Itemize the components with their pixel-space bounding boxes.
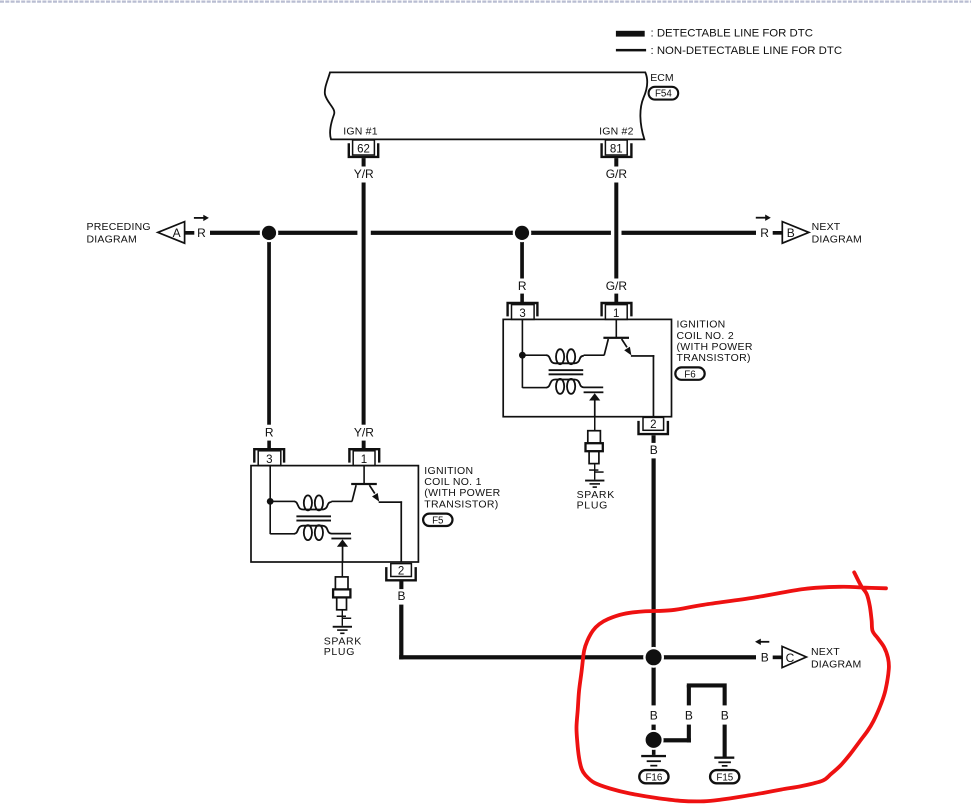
coil2 internal node xyxy=(519,352,526,359)
svg-text:F54: F54 xyxy=(655,89,672,100)
svg-text:3: 3 xyxy=(519,308,525,320)
svg-text:R: R xyxy=(518,279,527,293)
hand-drawn red circle around ground portion xyxy=(576,572,888,801)
bridge right leg upper xyxy=(723,688,727,706)
link line at C xyxy=(773,656,783,660)
svg-text:DIAGRAM: DIAGRAM xyxy=(87,234,137,246)
svg-text:PRECEDING: PRECEDING xyxy=(87,221,151,233)
coil2 emitter wire xyxy=(631,355,654,357)
junction node (bus / R wire to coil2) xyxy=(513,224,532,243)
stub to coil2 pin1 xyxy=(614,294,618,302)
svg-text:F5: F5 xyxy=(432,516,444,527)
connector F15 oval xyxy=(710,770,739,783)
svg-text:Y/R: Y/R xyxy=(354,426,374,440)
spark plug 2 ground xyxy=(585,480,604,482)
coil1 emitter wire xyxy=(379,501,402,503)
coil2 diode (to spark output) xyxy=(589,393,600,400)
stub to coil1 pin1 xyxy=(362,441,366,450)
coil2 collector wire to primary xyxy=(584,354,605,356)
svg-text:IGN #2: IGN #2 xyxy=(599,125,633,137)
coil1 secondary winding xyxy=(294,525,351,540)
ECM block outline (torn edges) xyxy=(325,72,647,139)
svg-text:B: B xyxy=(397,589,405,603)
svg-text:COIL NO. 1: COIL NO. 1 xyxy=(424,476,481,488)
svg-text:NEXT: NEXT xyxy=(811,646,840,658)
coil1 primary lead xyxy=(270,501,294,503)
svg-text:TRANSISTOR): TRANSISTOR) xyxy=(677,352,751,364)
coil1 primary winding xyxy=(294,495,331,510)
wire B vertical (coil1 pin2 down to bottom bus) xyxy=(399,605,403,660)
bridge left leg lower xyxy=(687,725,691,743)
coil1 secondary lead xyxy=(270,533,294,535)
connector arrow C (next diagram) xyxy=(782,646,806,667)
connector F6 oval xyxy=(675,367,704,379)
svg-text:2: 2 xyxy=(398,565,404,577)
ECM pin 62 box xyxy=(353,140,375,155)
coil2 core lines xyxy=(549,369,584,371)
coil1 pin 3 box xyxy=(258,451,281,466)
svg-text:A: A xyxy=(173,226,181,240)
wire B below node xyxy=(652,657,656,705)
wire R vertical (bus to coil no.2 pin 3) xyxy=(520,233,524,279)
coil1 core lines xyxy=(296,515,331,517)
coil2 pin 2 bracket xyxy=(639,421,668,434)
svg-text:1: 1 xyxy=(613,308,619,320)
bridge left leg upper xyxy=(687,685,691,705)
stub to coil1 pin3 xyxy=(267,441,271,450)
svg-text:PLUG: PLUG xyxy=(577,500,608,512)
coil no.1 box xyxy=(251,466,418,562)
coil2 internal: lead down to secondary xyxy=(522,355,524,388)
svg-text:(WITH POWER: (WITH POWER xyxy=(677,341,753,353)
coil2 secondary lead xyxy=(522,387,546,389)
coil2 pin2 stub xyxy=(652,435,656,443)
svg-text:G/R: G/R xyxy=(606,167,628,181)
coil2 power transistor base lead xyxy=(616,319,618,337)
svg-text:(WITH POWER: (WITH POWER xyxy=(424,487,500,499)
svg-text:NEXT: NEXT xyxy=(812,221,841,233)
legend thin non-detectable line sample xyxy=(616,49,646,52)
spark plug 2 xyxy=(586,431,603,464)
ECM pin 81 connector bracket xyxy=(602,143,632,157)
svg-text:COIL NO. 2: COIL NO. 2 xyxy=(677,330,734,342)
svg-text:81: 81 xyxy=(610,143,623,155)
ground stub below node xyxy=(652,748,656,755)
coil1 transistor collector leg xyxy=(352,485,356,501)
svg-text:B: B xyxy=(787,226,795,240)
svg-text:3: 3 xyxy=(266,454,272,466)
svg-text:C: C xyxy=(786,651,795,665)
wire from ground node to bridge xyxy=(654,738,691,742)
bottom junction node (bus / ground branch) xyxy=(643,647,664,668)
svg-text:B: B xyxy=(761,651,769,665)
ECM pin 62 connector bracket xyxy=(349,143,378,157)
connector F54 oval xyxy=(649,87,679,100)
connector arrow B (next diagram) xyxy=(782,222,809,244)
svg-text:R: R xyxy=(265,426,274,440)
coil1 diode cathode bar xyxy=(331,538,351,540)
direction arrow (right) near B xyxy=(756,217,767,219)
svg-text:IGN #1: IGN #1 xyxy=(343,125,377,137)
pin 81 stub wire xyxy=(614,158,618,166)
coil2 pin 3 bracket xyxy=(508,303,538,316)
spark plug 1 xyxy=(333,577,350,610)
svg-text:1: 1 xyxy=(361,454,367,466)
coil2 pin 1 box xyxy=(605,305,627,320)
coil1 pin 2 box xyxy=(391,564,412,577)
coil1 pin2 stub xyxy=(399,582,403,590)
svg-text:B: B xyxy=(650,443,658,457)
wire R vertical (bus to coil no.1 pin 3) xyxy=(267,233,271,425)
ground symbol F15 xyxy=(714,757,734,759)
ground symbol F16 xyxy=(641,755,666,757)
stub to coil2 pin3 xyxy=(520,294,524,302)
coil1 pin 1 box xyxy=(353,451,375,466)
svg-text:TRANSISTOR): TRANSISTOR) xyxy=(424,498,498,510)
coil2 primary lead xyxy=(522,354,546,356)
svg-text:IGNITION: IGNITION xyxy=(677,319,726,331)
coil2 pin 1 bracket xyxy=(602,303,632,316)
svg-text:F6: F6 xyxy=(684,369,696,380)
coil1 power transistor base bar xyxy=(351,483,377,485)
svg-text:IGNITION: IGNITION xyxy=(424,465,473,477)
coil1 diode lead down xyxy=(342,546,344,562)
spark plug 1 lead xyxy=(342,562,344,577)
coil2 transistor collector leg xyxy=(604,339,608,355)
coil no.2 box xyxy=(503,319,671,416)
coil2 transistor emitter leg with arrow xyxy=(622,339,627,347)
coil1 diode xyxy=(337,539,348,546)
svg-text:DIAGRAM: DIAGRAM xyxy=(811,659,861,671)
bridge top bar xyxy=(687,683,727,687)
page top faint dashed rule xyxy=(0,1,971,3)
svg-text:B: B xyxy=(650,708,658,722)
svg-text:R: R xyxy=(197,226,206,240)
legend thick detectable line sample xyxy=(616,31,645,37)
svg-text:: NON-DETECTABLE LINE FOR DTC: : NON-DETECTABLE LINE FOR DTC xyxy=(651,45,843,57)
wire B vertical (coil2 pin2 down to bus) xyxy=(652,458,656,659)
coil1 internal: lead from pin3 down xyxy=(269,466,271,502)
link line at A xyxy=(185,231,195,235)
coil2 secondary winding xyxy=(546,379,603,394)
pin 62 stub wire xyxy=(362,158,366,166)
svg-text:PLUG: PLUG xyxy=(324,646,355,658)
svg-text:R: R xyxy=(760,226,769,240)
coil2 diode lead down xyxy=(594,400,596,417)
connector F16 oval xyxy=(639,770,668,783)
coil1 pin 2 bracket xyxy=(386,567,415,580)
coil1 pin 1 bracket xyxy=(349,449,379,462)
svg-text:F15: F15 xyxy=(716,772,733,783)
coil1 pin 3 bracket xyxy=(254,449,284,462)
svg-text:Y/R: Y/R xyxy=(354,167,374,181)
coil2 pin 2 box xyxy=(643,417,664,430)
ground junction node xyxy=(644,730,664,750)
coil2 lead down to pin 2 xyxy=(653,355,655,417)
coil1 internal: lead down to secondary xyxy=(269,501,271,534)
svg-text:DIAGRAM: DIAGRAM xyxy=(812,234,862,246)
coil2 power transistor base bar xyxy=(603,337,629,339)
wire G/R vertical (pin 81 to coil no.2 pin 1) xyxy=(611,230,622,236)
direction arrow (left) near C xyxy=(759,641,769,643)
coil2 internal: lead from pin3 down xyxy=(522,319,524,355)
spark plug 1 ground xyxy=(333,626,352,628)
svg-text:62: 62 xyxy=(357,143,370,155)
coil2 primary winding xyxy=(546,349,583,364)
svg-text:B: B xyxy=(685,708,693,722)
svg-text:: DETECTABLE LINE FOR DTC: : DETECTABLE LINE FOR DTC xyxy=(651,28,813,40)
connector arrow A (preceding diagram) xyxy=(158,222,185,244)
bottom bus wire xyxy=(399,655,756,659)
spark plug 2 lead xyxy=(594,417,596,431)
coil1 collector wire to primary xyxy=(331,501,352,503)
svg-text:G/R: G/R xyxy=(606,279,628,293)
link line at B xyxy=(773,231,783,235)
svg-text:B: B xyxy=(721,708,729,722)
bridge right leg lower xyxy=(723,725,727,757)
coil2 diode cathode bar xyxy=(584,391,604,393)
svg-text:F16: F16 xyxy=(645,772,662,783)
coil2 pin 3 box xyxy=(512,305,535,320)
svg-text:2: 2 xyxy=(650,419,656,431)
coil1 transistor emitter leg with arrow xyxy=(369,485,374,493)
main bus wire A to B xyxy=(210,231,756,235)
junction node (bus / R wire to coil1) xyxy=(260,224,279,243)
connector F5 oval xyxy=(423,514,452,526)
ECM pin 81 box xyxy=(605,140,627,155)
wire Y/R vertical (pin 62 to coil no.1 pin 1) xyxy=(357,230,370,236)
coil1 power transistor base lead xyxy=(363,466,365,484)
direction arrow (right) near A xyxy=(194,217,205,219)
coil1 lead down to pin 2 xyxy=(400,501,402,562)
svg-text:ECM: ECM xyxy=(650,72,673,84)
coil1 internal node xyxy=(267,498,274,505)
